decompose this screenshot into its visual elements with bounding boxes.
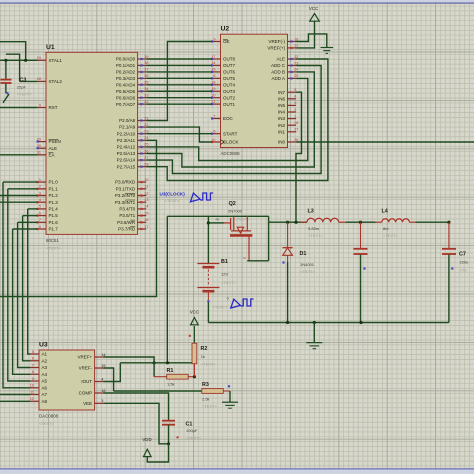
svg-text:RST: RST xyxy=(49,105,58,110)
junction R1/R2 xyxy=(193,375,196,378)
svg-text:5.83m: 5.83m xyxy=(308,226,320,231)
wire P0.0 to OUT8 xyxy=(146,58,212,60)
svg-text:<TEXT>: <TEXT> xyxy=(186,436,202,441)
svg-text:OUT5: OUT5 xyxy=(223,76,235,81)
svg-text:15: 15 xyxy=(101,364,105,368)
pin P2.0/A8 21 xyxy=(119,116,148,123)
wire P0.4 to OUT4 xyxy=(146,84,212,86)
pin OUT4 18 xyxy=(211,81,235,88)
svg-text:31: 31 xyxy=(37,151,41,155)
svg-text:27: 27 xyxy=(144,156,148,160)
wire P1.5 xyxy=(23,215,38,217)
junction D1 top xyxy=(286,221,289,224)
svg-text:1k: 1k xyxy=(201,354,205,359)
svg-text:PSEN: PSEN xyxy=(49,139,61,144)
pin ALE 30 xyxy=(37,144,58,151)
pin EOC 7 xyxy=(211,114,234,121)
svg-text:<TEXT>: <TEXT> xyxy=(300,269,316,274)
pin P1.5 6 xyxy=(37,211,59,218)
svg-text:3: 3 xyxy=(294,101,296,105)
wire P2.7 to ALE xyxy=(146,59,328,181)
svg-text:Q2: Q2 xyxy=(229,201,236,207)
pin ALE 22 xyxy=(276,55,298,62)
svg-text:22pF: 22pF xyxy=(17,84,27,89)
svg-text:XTAL2: XTAL2 xyxy=(49,79,63,84)
svg-text:EOC: EOC xyxy=(223,116,234,121)
svg-text:P1.7: P1.7 xyxy=(49,227,59,232)
svg-text:220u: 220u xyxy=(460,260,469,265)
svg-text:U2: U2 xyxy=(221,26,230,33)
pin P3.5/T1 15 xyxy=(119,211,148,218)
svg-text:24: 24 xyxy=(144,136,148,140)
battery B1 xyxy=(197,264,219,301)
svg-text:25: 25 xyxy=(294,74,298,78)
svg-text:VREF(-): VREF(-) xyxy=(269,39,286,44)
svg-text:P2.1/A9: P2.1/A9 xyxy=(119,125,136,130)
svg-text:P2.4/A12: P2.4/A12 xyxy=(117,145,136,150)
svg-text:OUT8: OUT8 xyxy=(223,57,235,62)
junction XTAL1 corner xyxy=(24,59,27,62)
svg-text:C7: C7 xyxy=(459,252,466,258)
pin CLOCK 10 xyxy=(211,138,239,145)
wire Q2 source bottom xyxy=(247,260,268,262)
pin A1 5 xyxy=(30,350,47,357)
svg-text:U3: U3 xyxy=(39,341,48,348)
node R2 top marker xyxy=(189,335,191,337)
wire VREF- to ground xyxy=(296,34,327,48)
svg-text:R3: R3 xyxy=(202,382,209,388)
svg-text:<TEXT>: <TEXT> xyxy=(202,404,218,409)
svg-text:<TEXT>: <TEXT> xyxy=(46,245,62,250)
pin P1.6 7 xyxy=(37,218,59,225)
svg-text:26: 26 xyxy=(144,149,148,153)
svg-text:16: 16 xyxy=(101,389,105,393)
pin P1.0 1 xyxy=(37,178,59,185)
svg-text:1N4001: 1N4001 xyxy=(300,262,315,267)
svg-text:19: 19 xyxy=(37,56,41,60)
svg-text:P2.3/A11: P2.3/A11 xyxy=(117,138,136,143)
svg-text:6: 6 xyxy=(39,211,41,215)
svg-text:22: 22 xyxy=(144,123,148,127)
svg-text:<TEXT>: <TEXT> xyxy=(17,92,33,97)
svg-text:D1: D1 xyxy=(300,251,307,257)
svg-text:<TEXT>: <TEXT> xyxy=(213,305,229,310)
wire B1 positive lead xyxy=(207,216,209,263)
capacitor C5 (filter) xyxy=(354,222,368,254)
pin P0.0/AD0 39 xyxy=(116,55,149,62)
svg-text:P2.0/A8: P2.0/A8 xyxy=(119,118,136,123)
resistor R2 xyxy=(192,326,197,377)
svg-text:A6: A6 xyxy=(42,385,48,390)
svg-text:8: 8 xyxy=(213,74,215,78)
pin VREF+ 12 xyxy=(267,44,298,51)
svg-text:C1: C1 xyxy=(186,422,193,428)
pin P1.4 5 xyxy=(37,205,59,212)
svg-text:7: 7 xyxy=(39,218,41,222)
pin OUT2 20 xyxy=(211,94,235,101)
wire D1 to ground rail xyxy=(287,262,289,323)
wire P1.0 to A6 xyxy=(3,182,30,388)
wire Q2 right edge xyxy=(268,216,270,260)
node filter cap marker xyxy=(363,267,365,269)
svg-text:9: 9 xyxy=(32,377,34,381)
wire VREF- to R3 xyxy=(114,390,202,392)
wire B1- to ground rail xyxy=(207,302,209,322)
svg-text:VCC: VCC xyxy=(309,6,318,11)
node C1 marker xyxy=(177,436,179,438)
svg-text:12: 12 xyxy=(30,397,34,401)
wire C3 top lead xyxy=(5,60,7,79)
junction VREF+ branch xyxy=(153,361,156,364)
svg-text:P1.0: P1.0 xyxy=(49,180,59,185)
svg-text:CLOCK: CLOCK xyxy=(223,140,239,145)
svg-text:ADD C: ADD C xyxy=(271,63,286,68)
op-amp U3 body (DAC0808) xyxy=(39,350,95,410)
pin IN6 4 xyxy=(278,95,296,102)
svg-text:IN5: IN5 xyxy=(278,103,286,108)
svg-text:OUT7: OUT7 xyxy=(223,63,235,68)
wire P0.3 to OUT5 xyxy=(146,77,212,79)
svg-text:XTAL1: XTAL1 xyxy=(49,58,63,63)
wire VCC to VREF+ xyxy=(296,21,314,48)
svg-text:1: 1 xyxy=(39,178,41,182)
svg-text:L4: L4 xyxy=(382,209,388,215)
svg-text:38: 38 xyxy=(144,61,148,65)
node crystal stub marker xyxy=(6,92,8,94)
svg-text:IN3: IN3 xyxy=(278,116,286,121)
transistor Q2 2N7000 xyxy=(224,216,252,260)
svg-text:14: 14 xyxy=(101,353,105,357)
svg-text:2.5k: 2.5k xyxy=(202,397,210,402)
pin P1.7 8 xyxy=(37,225,59,232)
node D1 marker xyxy=(282,261,284,263)
pin P2.6/A14 27 xyxy=(117,156,149,163)
wire gate feed xyxy=(208,222,224,224)
svg-text:8m: 8m xyxy=(383,226,389,231)
pin A2 6 xyxy=(30,357,47,364)
junction D1 bottom xyxy=(286,321,289,324)
svg-text:39: 39 xyxy=(144,55,148,59)
svg-text:VREF+: VREF+ xyxy=(77,355,92,360)
wire P1.7 xyxy=(13,228,38,230)
junction rail ground tap xyxy=(313,321,316,324)
svg-text:L3: L3 xyxy=(308,209,314,215)
wire P1.1 to A5 xyxy=(8,189,31,381)
pin VREF+ 14 xyxy=(77,353,105,360)
wire C7 to ground rail xyxy=(448,255,450,323)
svg-text:35: 35 xyxy=(144,81,148,85)
svg-text:<TEXT>: <TEXT> xyxy=(39,421,55,426)
svg-text:P3.2/INT0: P3.2/INT0 xyxy=(115,193,136,198)
op-amp U1 body (80C51 MCU) xyxy=(46,52,138,234)
svg-text:PN: PN xyxy=(216,218,220,222)
svg-text:ADD B: ADD B xyxy=(271,70,285,75)
junction gate net / R-network xyxy=(166,361,169,364)
svg-text:A8: A8 xyxy=(42,399,48,404)
wire VREF- down xyxy=(103,368,113,391)
op-amp U2 body (ADC0808) xyxy=(221,34,288,147)
svg-text:7: 7 xyxy=(213,114,215,118)
pin CLOCK clock chevron xyxy=(221,140,225,145)
pin ADD C 23 xyxy=(271,61,298,68)
svg-text:A1: A1 xyxy=(42,352,48,357)
svg-text:4: 4 xyxy=(294,95,296,99)
pin IN5 3 xyxy=(278,101,296,108)
wire P2.4 to ADD A xyxy=(146,78,308,160)
pin P1.2 3 xyxy=(37,191,59,198)
wire IN7 to rail xyxy=(296,92,302,222)
svg-text:N: N xyxy=(244,256,246,260)
pin P0.1/AD1 38 xyxy=(116,61,149,68)
svg-text:15: 15 xyxy=(144,211,148,215)
svg-text:OUT3: OUT3 xyxy=(223,89,235,94)
svg-text:COMP: COMP xyxy=(79,391,93,396)
capacitor C7 xyxy=(442,222,456,254)
svg-text:6: 6 xyxy=(213,130,215,134)
svg-text:IN7: IN7 xyxy=(278,90,286,95)
svg-text:2: 2 xyxy=(39,185,41,189)
svg-text:B1: B1 xyxy=(221,259,228,265)
svg-text:A7: A7 xyxy=(42,392,48,397)
pin P0.4/AD4 35 xyxy=(116,81,149,88)
wire Q2 top line xyxy=(167,215,268,217)
wire COMP to C1 xyxy=(103,393,168,420)
svg-text:<TEXT>: <TEXT> xyxy=(221,280,237,285)
svg-text:P0.6/AD6: P0.6/AD6 xyxy=(116,95,136,100)
pin P3.7/RD 17 xyxy=(118,225,148,232)
svg-text:A4: A4 xyxy=(42,372,48,377)
svg-text:IOUT: IOUT xyxy=(81,379,92,384)
pin P0.6/AD6 33 xyxy=(116,94,149,101)
pin OUT8 17 xyxy=(211,55,235,62)
svg-text:U1: U1 xyxy=(46,44,55,51)
svg-text:36: 36 xyxy=(144,74,148,78)
wire IOUT up xyxy=(103,363,120,382)
wire VEE net xyxy=(103,403,168,444)
wire R3 to ground xyxy=(229,391,231,402)
svg-text:100µF: 100µF xyxy=(186,428,198,433)
pin IN2 28 xyxy=(278,121,298,128)
pin A5 9 xyxy=(30,377,47,384)
svg-text:10: 10 xyxy=(144,178,148,182)
junction filter cap top xyxy=(359,221,362,224)
pin P2.7/A15 28 xyxy=(117,163,149,170)
svg-text:VCC: VCC xyxy=(190,310,199,315)
pin P1.1 2 xyxy=(37,185,59,192)
svg-text:P0.0/AD0: P0.0/AD0 xyxy=(116,57,136,62)
svg-text:R2: R2 xyxy=(201,346,208,352)
svg-text:VREF-: VREF- xyxy=(79,366,93,371)
svg-text:A5: A5 xyxy=(42,379,48,384)
svg-text:25: 25 xyxy=(144,143,148,147)
svg-text:8: 8 xyxy=(39,225,41,229)
wire P1.6 to A3 xyxy=(18,222,31,367)
svg-text:11: 11 xyxy=(30,390,34,394)
wire filter cap to ground rail xyxy=(360,255,362,323)
junction IN7 tap xyxy=(294,221,297,224)
svg-text:P1.3: P1.3 xyxy=(49,200,59,205)
svg-text:16: 16 xyxy=(144,218,148,222)
wire XTAL1 net xyxy=(0,59,38,61)
svg-text:OE: OE xyxy=(223,39,230,44)
pin OUT6 15 xyxy=(211,68,235,75)
wire A7 from left edge xyxy=(0,394,30,396)
pin P2.1/A9 22 xyxy=(119,123,148,130)
svg-text:4: 4 xyxy=(101,377,103,381)
wire IN0 to right edge xyxy=(296,141,474,143)
wire ground rail xyxy=(208,322,449,324)
svg-text:P3.6/WR: P3.6/WR xyxy=(117,220,136,225)
svg-text:21: 21 xyxy=(144,116,148,120)
generator U3(CLOCK) icon xyxy=(190,193,213,202)
svg-text:3: 3 xyxy=(101,399,103,403)
svg-text:18: 18 xyxy=(37,77,41,81)
pin P3.0/RXD 10 xyxy=(115,178,148,185)
pin P2.5/A13 26 xyxy=(117,149,149,156)
pin IN0 26 xyxy=(278,138,298,145)
pin A6 10 xyxy=(30,384,48,391)
svg-text:P0.2/AD2: P0.2/AD2 xyxy=(116,70,136,75)
pin VEE 3 xyxy=(83,399,103,406)
wire P0.6 to OUT2 xyxy=(146,97,212,99)
svg-text:12V: 12V xyxy=(221,272,228,277)
pin P0.3/AD3 36 xyxy=(116,74,149,81)
svg-text:13: 13 xyxy=(144,198,148,202)
svg-text:P2.7/A15: P2.7/A15 xyxy=(117,164,136,169)
svg-text:OUT4: OUT4 xyxy=(223,82,235,87)
svg-text:<TE: <TE xyxy=(460,268,468,273)
svg-text:P0.3/AD3: P0.3/AD3 xyxy=(116,76,136,81)
svg-text:U3(CLOCK): U3(CLOCK) xyxy=(160,192,186,197)
wire rail to ground xyxy=(313,323,315,343)
svg-text:START: START xyxy=(223,131,238,136)
pin P2.4/A12 25 xyxy=(117,143,149,150)
power VDD arrow xyxy=(144,449,152,456)
svg-text:DAC0808: DAC0808 xyxy=(39,414,59,419)
svg-text:VEE: VEE xyxy=(83,401,92,406)
wire VREF+ to R1 left xyxy=(103,357,154,377)
svg-text:12: 12 xyxy=(294,44,298,48)
svg-text:P1.6: P1.6 xyxy=(49,220,59,225)
pin ADD B 24 xyxy=(271,68,298,75)
svg-text:P1.5: P1.5 xyxy=(49,213,59,218)
svg-text:IN2: IN2 xyxy=(278,123,286,128)
svg-text:P3.0/RXD: P3.0/RXD xyxy=(115,180,136,185)
pin VREF- 16 xyxy=(269,37,299,44)
wire P2.3 down-left xyxy=(0,140,157,296)
wire P2.5 to ADD B xyxy=(146,72,314,167)
capacitor C3 xyxy=(1,80,12,83)
pin XTAL1 19 xyxy=(37,56,63,63)
pin IN3 1 xyxy=(278,114,296,121)
junction C1 / VEE / VDD xyxy=(167,442,170,445)
svg-text:28: 28 xyxy=(294,121,298,125)
pin P0.2/AD2 37 xyxy=(116,68,149,75)
junction B1+ / gate xyxy=(207,221,210,224)
ground symbol (R3) xyxy=(222,402,238,408)
power VCC arrow (R2) xyxy=(191,318,199,325)
svg-text:12: 12 xyxy=(144,191,148,195)
svg-text:P1.4: P1.4 xyxy=(49,207,59,212)
pin IN1 27 xyxy=(278,128,298,135)
svg-text:10: 10 xyxy=(30,384,34,388)
pin P3.2/INT0 12 xyxy=(115,191,149,198)
svg-text:22: 22 xyxy=(294,55,298,59)
pin A4 8 xyxy=(30,370,47,377)
pin A7 11 xyxy=(30,390,47,397)
svg-text:17: 17 xyxy=(144,225,148,229)
svg-text:32: 32 xyxy=(144,100,148,104)
wire A8 from left edge xyxy=(0,400,30,402)
svg-text:4: 4 xyxy=(39,198,41,202)
svg-text:26: 26 xyxy=(294,138,298,142)
svg-text:VREF(+): VREF(+) xyxy=(267,46,285,51)
svg-text:9: 9 xyxy=(39,103,41,107)
svg-text:OUT6: OUT6 xyxy=(223,70,235,75)
svg-text:P2.5/A13: P2.5/A13 xyxy=(117,151,136,156)
pin OUT3 19 xyxy=(211,87,235,94)
wire P1.7 to A4 xyxy=(13,229,31,374)
power VCC arrow xyxy=(310,14,320,22)
wire P1.6 xyxy=(18,221,38,223)
junction C3 top / XTAL1 xyxy=(4,59,7,62)
node C7 marker xyxy=(451,267,453,269)
node R3 marker xyxy=(228,385,230,387)
wire P1.5 to A2 xyxy=(23,216,31,361)
svg-text:27: 27 xyxy=(294,128,298,132)
inductor L4 xyxy=(376,219,416,222)
svg-text:P0.1/AD1: P0.1/AD1 xyxy=(116,63,136,68)
svg-text:P1.1: P1.1 xyxy=(49,186,59,191)
inductor L3 xyxy=(300,218,345,222)
svg-text:14: 14 xyxy=(144,205,148,209)
wire P1.0 xyxy=(3,181,37,183)
svg-text:3: 3 xyxy=(39,191,41,195)
generator ? icon xyxy=(231,299,254,308)
svg-text:IN0: IN0 xyxy=(278,140,286,145)
svg-text:P0.4/AD4: P0.4/AD4 xyxy=(116,82,136,87)
svg-text:<TEXT>: <TEXT> xyxy=(308,233,324,238)
svg-text:IN1: IN1 xyxy=(278,129,286,134)
pin IN4 2 xyxy=(278,108,296,115)
wire P2.6 to ADD C xyxy=(146,66,321,174)
capacitor C1 xyxy=(162,421,175,425)
svg-text:<TEXT>: <TEXT> xyxy=(383,233,399,238)
svg-text:5: 5 xyxy=(39,205,41,209)
svg-text:P3.4/T0: P3.4/T0 xyxy=(119,207,135,212)
svg-text:P1.2: P1.2 xyxy=(49,193,59,198)
ground symbol (top) xyxy=(321,48,334,54)
wire L4 to C7 xyxy=(415,221,449,223)
pin P3.4/T0 14 xyxy=(119,205,148,212)
wire P1.2 to left edge xyxy=(0,195,37,197)
pin P0.7/AD7 32 xyxy=(116,100,149,107)
wire EA from left edge xyxy=(0,154,38,156)
svg-text:VDD: VDD xyxy=(142,437,151,442)
svg-text:IN6: IN6 xyxy=(278,96,286,101)
svg-text:OUT1: OUT1 xyxy=(223,102,235,107)
svg-text:5: 5 xyxy=(32,350,34,354)
wire C1 bottom xyxy=(168,425,170,444)
svg-text:P3.1/TXD: P3.1/TXD xyxy=(116,186,136,191)
pin A8 12 xyxy=(30,397,48,404)
svg-text:33: 33 xyxy=(144,94,148,98)
resistor R1 xyxy=(154,374,194,379)
svg-text:24: 24 xyxy=(294,68,298,72)
pin P0.5/AD5 34 xyxy=(116,87,149,94)
pin PSEN 29 xyxy=(37,137,61,144)
wire P2.2 to START xyxy=(146,133,212,135)
